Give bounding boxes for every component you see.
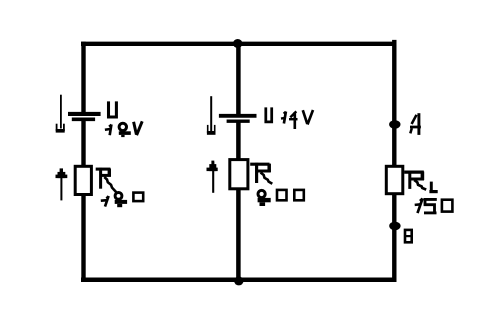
label 200 (resistor R2 value)	[258, 190, 304, 206]
battery U2	[219, 116, 257, 121]
node B dot	[389, 222, 400, 231]
resistor R2	[230, 160, 248, 189]
label RL	[404, 171, 438, 192]
label U (battery U1)	[109, 101, 117, 117]
wire left branch	[81, 42, 85, 282]
resistor RL	[386, 166, 403, 193]
node A dot	[389, 120, 400, 129]
wire top	[81, 42, 396, 46]
label R (resistor R1)	[96, 168, 117, 193]
current arrow at battery U2	[207, 96, 216, 135]
wire right branch	[392, 40, 396, 282]
current arrow at resistor R1	[56, 168, 68, 200]
label U 14V (battery U2)	[266, 107, 313, 129]
label B	[405, 230, 412, 242]
label 12V (battery U1 value)	[105, 121, 142, 137]
label 120 (resistor R1 value)	[101, 193, 143, 208]
battery U1	[68, 114, 101, 119]
wire middle branch	[236, 42, 241, 282]
label 150 (resistor RL value)	[415, 198, 453, 213]
resistor R1	[75, 166, 91, 194]
junction dot bottom	[234, 276, 243, 285]
wire bottom	[81, 278, 396, 283]
current arrow at resistor R2	[207, 161, 218, 193]
label R (resistor R2)	[250, 163, 272, 184]
label A	[410, 113, 421, 135]
current arrow at battery U1	[56, 95, 65, 133]
junction dot top	[233, 39, 243, 48]
